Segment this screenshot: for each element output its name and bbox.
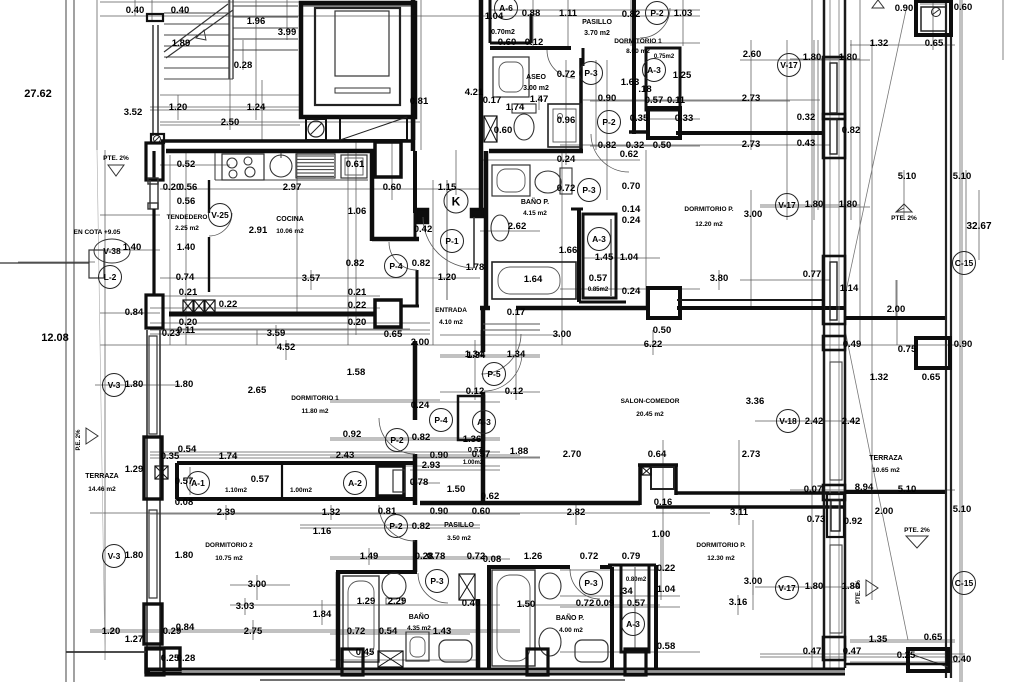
svg-text:2.43: 2.43 [336, 450, 355, 461]
svg-text:5.10: 5.10 [898, 484, 917, 495]
svg-text:0.82: 0.82 [412, 432, 431, 443]
svg-text:1.04: 1.04 [657, 584, 676, 595]
svg-text:0.57: 0.57 [468, 445, 483, 454]
svg-text:3.80: 3.80 [710, 273, 729, 284]
svg-text:12.20 m2: 12.20 m2 [695, 221, 723, 228]
svg-text:0.90: 0.90 [430, 506, 449, 517]
svg-text:ENTRADA: ENTRADA [435, 307, 467, 314]
svg-text:0.73: 0.73 [807, 514, 826, 525]
svg-text:PTE. 2%: PTE. 2% [904, 527, 930, 534]
svg-text:P-3: P-3 [584, 68, 598, 78]
svg-text:4.15 m2: 4.15 m2 [523, 210, 547, 217]
svg-text:14.46 m2: 14.46 m2 [88, 486, 116, 493]
svg-text:10.75 m2: 10.75 m2 [215, 555, 243, 562]
svg-text:0.75: 0.75 [898, 344, 917, 355]
svg-text:2.00: 2.00 [887, 304, 906, 315]
svg-text:0.40: 0.40 [126, 5, 145, 16]
svg-text:0.25: 0.25 [897, 650, 916, 661]
svg-text:0.20: 0.20 [348, 317, 367, 328]
svg-text:0.74: 0.74 [176, 272, 195, 283]
svg-text:1.40: 1.40 [177, 242, 196, 253]
svg-text:0.60: 0.60 [494, 125, 513, 136]
svg-text:0.57: 0.57 [645, 95, 664, 106]
svg-text:0.85m2: 0.85m2 [588, 287, 609, 293]
svg-text:3.00: 3.00 [744, 209, 763, 220]
svg-text:1.29: 1.29 [357, 596, 376, 607]
svg-text:0.35: 0.35 [161, 451, 180, 462]
svg-text:1.80: 1.80 [805, 199, 824, 210]
svg-text:2.60: 2.60 [743, 49, 762, 60]
svg-text:0.40: 0.40 [462, 598, 481, 609]
svg-text:P-2: P-2 [602, 117, 616, 127]
svg-text:PASILLO: PASILLO [444, 522, 474, 529]
svg-text:2.91: 2.91 [249, 225, 268, 236]
svg-text:A-3: A-3 [626, 619, 640, 629]
svg-text:0.57: 0.57 [175, 476, 194, 487]
svg-text:1.32: 1.32 [870, 372, 889, 383]
svg-text:0.57: 0.57 [589, 273, 608, 284]
svg-text:0.65: 0.65 [384, 329, 403, 340]
svg-text:1.80: 1.80 [839, 52, 858, 63]
svg-text:1.64: 1.64 [524, 274, 543, 285]
svg-text:2.65: 2.65 [248, 385, 267, 396]
svg-text:1.36: 1.36 [463, 434, 482, 445]
svg-text:0.78: 0.78 [410, 477, 429, 488]
svg-text:V-17: V-17 [778, 583, 796, 593]
svg-text:2.82: 2.82 [567, 507, 586, 518]
svg-text:1.80: 1.80 [175, 379, 194, 390]
svg-text:1.00m2: 1.00m2 [463, 460, 484, 466]
svg-text:0.22: 0.22 [348, 300, 367, 311]
svg-text:1.04: 1.04 [620, 252, 639, 263]
svg-text:0.08: 0.08 [175, 497, 194, 508]
svg-text:0.33: 0.33 [675, 113, 694, 124]
svg-text:0.57: 0.57 [251, 474, 270, 485]
svg-text:0.82: 0.82 [346, 258, 365, 269]
svg-text:0.11: 0.11 [667, 95, 686, 106]
svg-text:0.14: 0.14 [622, 204, 641, 215]
svg-text:0.21: 0.21 [179, 287, 198, 298]
svg-text:0.64: 0.64 [648, 449, 667, 460]
svg-text:1.34: 1.34 [467, 350, 486, 361]
svg-text:P.E. 2%: P.E. 2% [76, 429, 82, 451]
svg-text:1.10m2: 1.10m2 [225, 487, 247, 494]
svg-text:2.62: 2.62 [508, 221, 527, 232]
svg-text:1.49: 1.49 [360, 551, 379, 562]
svg-text:0.40: 0.40 [953, 654, 972, 665]
svg-text:0.70m2: 0.70m2 [491, 29, 515, 36]
svg-text:0.42: 0.42 [414, 224, 433, 235]
svg-text:5.10: 5.10 [953, 171, 972, 182]
svg-text:K: K [452, 195, 461, 209]
svg-text:12.30 m2: 12.30 m2 [707, 555, 735, 562]
svg-text:SALON-COMEDOR: SALON-COMEDOR [621, 398, 680, 405]
svg-text:1.25: 1.25 [673, 70, 692, 81]
svg-text:0.24: 0.24 [622, 286, 641, 297]
svg-text:0.22: 0.22 [657, 563, 676, 574]
svg-text:3.16: 3.16 [729, 597, 748, 608]
svg-text:3.59: 3.59 [267, 328, 286, 339]
svg-text:5.10: 5.10 [898, 171, 917, 182]
svg-text:1.00m2: 1.00m2 [290, 487, 312, 494]
svg-text:0.60: 0.60 [383, 182, 402, 193]
svg-text:32.67: 32.67 [966, 221, 991, 232]
svg-text:DORMITORIO 2: DORMITORIO 2 [205, 542, 253, 549]
svg-text:3.36: 3.36 [746, 396, 765, 407]
svg-text:DORMITORIO P.: DORMITORIO P. [696, 542, 745, 549]
svg-text:0.82: 0.82 [412, 521, 431, 532]
svg-text:4.10 m2: 4.10 m2 [439, 319, 463, 326]
svg-text:3.50 m2: 3.50 m2 [447, 535, 471, 542]
svg-text:5.10: 5.10 [953, 504, 972, 515]
svg-text:P-2: P-2 [390, 435, 404, 445]
svg-text:1.40: 1.40 [123, 242, 142, 253]
svg-text:3.03: 3.03 [236, 601, 255, 612]
svg-text:BAÑO P.: BAÑO P. [521, 197, 549, 206]
svg-text:0.58: 0.58 [657, 641, 676, 652]
svg-text:COCINA: COCINA [276, 216, 304, 223]
svg-text:0.78: 0.78 [427, 551, 446, 562]
svg-text:P-2: P-2 [650, 8, 664, 18]
svg-text:1.80: 1.80 [125, 379, 144, 390]
svg-text:2.00: 2.00 [875, 506, 894, 517]
svg-text:1.35: 1.35 [869, 634, 888, 645]
svg-text:DORMITORIO P.: DORMITORIO P. [684, 206, 733, 213]
svg-text:2.70: 2.70 [563, 449, 582, 460]
svg-text:DORMITORIO 1: DORMITORIO 1 [291, 395, 339, 402]
svg-text:A-3: A-3 [592, 234, 606, 244]
svg-text:1.43: 1.43 [433, 626, 452, 637]
svg-text:3.70 m2: 3.70 m2 [584, 30, 610, 37]
svg-text:1.47: 1.47 [530, 94, 549, 105]
svg-text:0.72: 0.72 [576, 598, 595, 609]
svg-text:1.66: 1.66 [559, 245, 578, 256]
svg-text:20.45 m2: 20.45 m2 [636, 411, 664, 418]
svg-text:V-17: V-17 [780, 60, 798, 70]
svg-text:1.16: 1.16 [313, 526, 332, 537]
svg-text:0.54: 0.54 [379, 626, 398, 637]
svg-text:1.80: 1.80 [842, 581, 861, 592]
svg-text:1.11: 1.11 [559, 8, 578, 19]
svg-text:0.09: 0.09 [596, 598, 615, 609]
svg-text:10.06 m2: 10.06 m2 [276, 228, 304, 235]
svg-text:10.65 m2: 10.65 m2 [872, 467, 900, 474]
svg-text:0.96: 0.96 [557, 115, 576, 126]
svg-text:0.32: 0.32 [797, 112, 816, 123]
svg-text:2.00: 2.00 [411, 337, 430, 348]
svg-text:2.93: 2.93 [422, 460, 441, 471]
svg-text:0.56: 0.56 [177, 196, 196, 207]
svg-text:1.32: 1.32 [322, 507, 341, 518]
svg-text:0.45: 0.45 [356, 647, 375, 658]
svg-text:.18: .18 [638, 84, 651, 95]
svg-text:1.26: 1.26 [524, 551, 543, 562]
svg-text:27.62: 27.62 [24, 88, 52, 100]
svg-text:4.35 m2: 4.35 m2 [407, 625, 431, 632]
svg-text:V-25: V-25 [211, 210, 229, 220]
svg-text:0.90: 0.90 [954, 339, 973, 350]
svg-text:P-3: P-3 [430, 576, 444, 586]
svg-text:1.20: 1.20 [169, 102, 188, 113]
svg-text:1.06: 1.06 [348, 206, 367, 217]
svg-text:0.81: 0.81 [410, 96, 429, 107]
svg-text:0.47: 0.47 [843, 646, 862, 657]
svg-text:3.11: 3.11 [730, 507, 749, 518]
svg-text:1.80: 1.80 [803, 52, 822, 63]
svg-text:0.72: 0.72 [557, 183, 576, 194]
svg-text:0.62: 0.62 [481, 491, 500, 502]
svg-text:TENDEDERO: TENDEDERO [167, 214, 208, 221]
svg-text:EN COTA +9.05: EN COTA +9.05 [74, 229, 121, 236]
svg-text:1.34: 1.34 [507, 349, 526, 360]
svg-text:BAÑO P.: BAÑO P. [556, 613, 584, 622]
svg-text:0.24: 0.24 [557, 154, 576, 165]
svg-text:0.90: 0.90 [895, 3, 914, 14]
svg-text:4.52: 4.52 [277, 342, 296, 353]
svg-text:0.65: 0.65 [922, 372, 941, 383]
svg-text:0.80m2: 0.80m2 [626, 577, 647, 583]
svg-text:12.08: 12.08 [41, 332, 69, 344]
svg-text:0.65: 0.65 [924, 632, 943, 643]
svg-text:3.00: 3.00 [744, 576, 763, 587]
svg-text:1.20: 1.20 [102, 626, 121, 637]
svg-text:2.42: 2.42 [805, 416, 824, 427]
svg-text:6.22: 6.22 [644, 339, 663, 350]
svg-text:0.77: 0.77 [803, 269, 822, 280]
svg-text:2.97: 2.97 [283, 182, 302, 193]
svg-text:8.94: 8.94 [855, 482, 874, 493]
svg-text:PTE. 2%: PTE. 2% [103, 155, 129, 162]
svg-text:0.81: 0.81 [378, 506, 397, 517]
svg-text:1.20: 1.20 [438, 272, 457, 283]
svg-text:2.29: 2.29 [388, 596, 407, 607]
svg-text:2.73: 2.73 [742, 93, 761, 104]
svg-text:1.50: 1.50 [517, 599, 536, 610]
svg-text:0.70: 0.70 [622, 181, 641, 192]
svg-text:2.25 m2: 2.25 m2 [175, 225, 199, 232]
svg-text:0.50: 0.50 [653, 325, 672, 336]
svg-text:0.40: 0.40 [171, 5, 190, 16]
svg-text:1.45: 1.45 [595, 252, 614, 263]
svg-text:3.00: 3.00 [248, 579, 267, 590]
svg-text:0.72: 0.72 [557, 69, 576, 80]
svg-text:0.43: 0.43 [797, 138, 816, 149]
svg-text:0.28: 0.28 [234, 60, 253, 71]
svg-text:0.60: 0.60 [472, 506, 491, 517]
svg-text:P-4: P-4 [434, 415, 448, 425]
svg-text:1.24: 1.24 [247, 102, 266, 113]
svg-text:1.14: 1.14 [840, 283, 859, 294]
svg-text:1.32: 1.32 [870, 38, 889, 49]
svg-text:0.35: 0.35 [630, 113, 649, 124]
svg-text:2.50: 2.50 [221, 117, 240, 128]
svg-text:0.72: 0.72 [347, 626, 366, 637]
svg-text:ASEO: ASEO [526, 74, 546, 81]
svg-text:0.57: 0.57 [627, 598, 646, 609]
svg-text:A-3: A-3 [477, 417, 491, 427]
svg-text:0.47: 0.47 [803, 646, 822, 657]
svg-text:1.80: 1.80 [805, 581, 824, 592]
svg-text:0.60: 0.60 [498, 37, 517, 48]
svg-text:BAÑO: BAÑO [409, 612, 430, 621]
svg-text:4.21: 4.21 [465, 87, 484, 98]
svg-text:0.61: 0.61 [346, 159, 365, 170]
svg-text:TERRAZA: TERRAZA [869, 455, 902, 462]
svg-text:2.75: 2.75 [244, 626, 263, 637]
svg-text:.34: .34 [619, 586, 633, 597]
svg-text:0.60: 0.60 [954, 2, 973, 13]
svg-text:0.92: 0.92 [844, 516, 863, 527]
svg-text:0.52: 0.52 [177, 159, 196, 170]
svg-text:P-2: P-2 [389, 521, 403, 531]
svg-text:A-2: A-2 [348, 478, 362, 488]
svg-text:P-5: P-5 [487, 369, 501, 379]
svg-text:0.84: 0.84 [125, 307, 144, 318]
svg-text:P-4: P-4 [389, 261, 403, 271]
svg-text:1.78: 1.78 [466, 262, 485, 273]
svg-text:0.07: 0.07 [804, 484, 823, 495]
svg-text:DORMITORIO 1: DORMITORIO 1 [614, 38, 662, 45]
svg-text:0.28: 0.28 [177, 653, 196, 664]
svg-text:2.73: 2.73 [742, 449, 761, 460]
svg-text:3.52: 3.52 [124, 107, 143, 118]
svg-text:1.29: 1.29 [125, 464, 144, 475]
svg-text:0.82: 0.82 [598, 140, 617, 151]
svg-text:0.75m2: 0.75m2 [654, 54, 675, 60]
svg-text:4.00 m2: 4.00 m2 [559, 627, 583, 634]
svg-text:0.49: 0.49 [843, 339, 862, 350]
svg-text:0.90: 0.90 [598, 93, 617, 104]
svg-text:PASILLO: PASILLO [582, 19, 612, 26]
svg-text:C-15: C-15 [955, 578, 974, 588]
svg-text:0.56: 0.56 [179, 182, 198, 193]
svg-text:0.17: 0.17 [483, 95, 502, 106]
svg-text:2.42: 2.42 [842, 416, 861, 427]
svg-text:0.24: 0.24 [411, 400, 430, 411]
svg-text:TERRAZA: TERRAZA [85, 473, 118, 480]
svg-text:V-18: V-18 [779, 416, 797, 426]
svg-text:0.08: 0.08 [483, 554, 502, 565]
svg-text:1.89: 1.89 [172, 38, 191, 49]
svg-text:0.50: 0.50 [653, 140, 672, 151]
svg-text:1.58: 1.58 [347, 367, 366, 378]
svg-text:V-3: V-3 [108, 551, 121, 561]
svg-text:V-38: V-38 [103, 246, 121, 256]
svg-text:2.73: 2.73 [742, 139, 761, 150]
svg-text:1.84: 1.84 [313, 609, 332, 620]
svg-text:0.12: 0.12 [466, 386, 485, 397]
svg-text:1.50: 1.50 [447, 484, 466, 495]
svg-text:1.63: 1.63 [621, 77, 640, 88]
svg-text:1.04: 1.04 [485, 11, 504, 22]
svg-text:0.17: 0.17 [507, 307, 526, 318]
svg-text:1.88: 1.88 [510, 446, 529, 457]
svg-text:1.74: 1.74 [506, 102, 525, 113]
svg-text:0.21: 0.21 [348, 287, 367, 298]
svg-text:V-3: V-3 [108, 380, 121, 390]
svg-text:0.79: 0.79 [622, 551, 641, 562]
svg-text:0.29: 0.29 [163, 626, 182, 637]
svg-text:3.00: 3.00 [553, 329, 572, 340]
svg-text:1.80: 1.80 [839, 199, 858, 210]
svg-text:0.82: 0.82 [842, 125, 861, 136]
svg-text:P-3: P-3 [582, 185, 596, 195]
svg-text:0.88: 0.88 [522, 8, 541, 19]
svg-text:1.80: 1.80 [125, 550, 144, 561]
svg-text:0.23: 0.23 [162, 328, 181, 339]
svg-text:1.96: 1.96 [247, 16, 266, 27]
svg-text:L-2: L-2 [104, 272, 117, 282]
svg-text:0.82: 0.82 [412, 258, 431, 269]
svg-text:A-3: A-3 [647, 65, 661, 75]
svg-text:0.24: 0.24 [622, 215, 641, 226]
svg-text:1.15: 1.15 [438, 182, 457, 193]
svg-text:PTE. 2%: PTE. 2% [891, 215, 917, 222]
svg-text:1.27: 1.27 [125, 634, 144, 645]
svg-text:8.00 m2: 8.00 m2 [626, 48, 650, 55]
svg-text:0.62: 0.62 [620, 149, 639, 160]
svg-text:3.00 m2: 3.00 m2 [523, 85, 549, 92]
svg-text:0.25: 0.25 [161, 653, 180, 664]
svg-text:C-15: C-15 [955, 258, 974, 268]
svg-text:0.72: 0.72 [580, 551, 599, 562]
svg-text:1.03: 1.03 [674, 8, 693, 19]
svg-text:P-1: P-1 [445, 236, 459, 246]
svg-text:P-3: P-3 [584, 578, 598, 588]
svg-text:3.57: 3.57 [302, 273, 321, 284]
svg-text:0.12: 0.12 [525, 37, 544, 48]
svg-text:0.65: 0.65 [925, 38, 944, 49]
svg-text:11.80 m2: 11.80 m2 [301, 408, 328, 415]
svg-text:1.74: 1.74 [219, 451, 238, 462]
svg-text:3.99: 3.99 [278, 27, 297, 38]
svg-text:0.92: 0.92 [343, 429, 362, 440]
svg-text:0.22: 0.22 [219, 299, 238, 310]
svg-text:V-17: V-17 [778, 200, 796, 210]
svg-text:0.82: 0.82 [622, 9, 641, 20]
svg-text:0.12: 0.12 [505, 386, 524, 397]
svg-text:0.54: 0.54 [178, 444, 197, 455]
svg-text:2.39: 2.39 [217, 507, 236, 518]
svg-text:0.16: 0.16 [654, 497, 673, 508]
svg-text:1.80: 1.80 [175, 550, 194, 561]
svg-text:1.00: 1.00 [652, 529, 671, 540]
